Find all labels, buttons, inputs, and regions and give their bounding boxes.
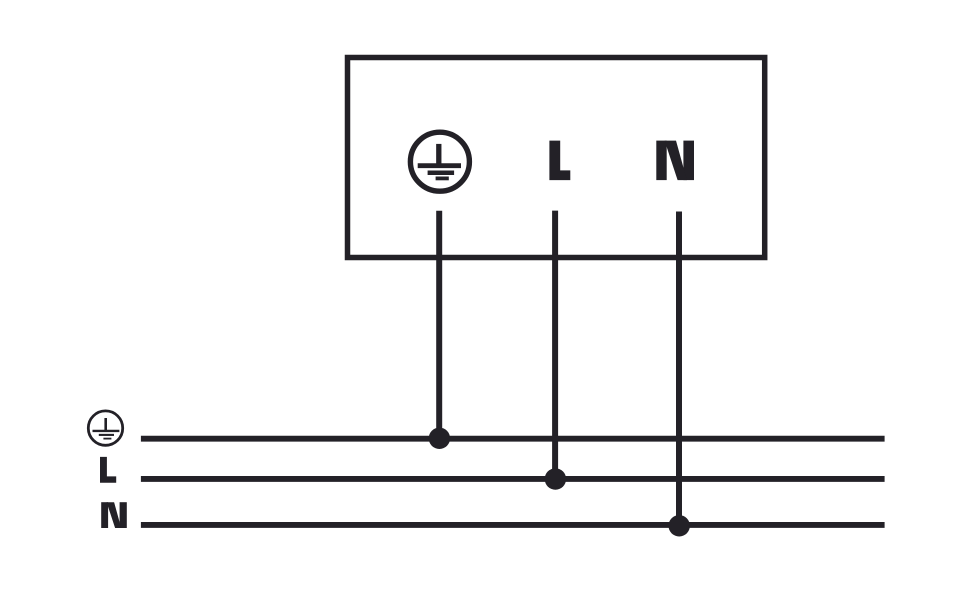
N bus label <box>101 502 127 528</box>
terminal label L <box>549 141 570 181</box>
junction dot L <box>545 468 566 489</box>
wire from L terminal <box>552 211 558 479</box>
junction dot N <box>669 515 690 536</box>
N bus line <box>141 522 885 528</box>
junction dot PE <box>429 428 450 449</box>
terminal box outline <box>348 58 765 258</box>
terminal label N <box>656 141 694 181</box>
wire from PE terminal <box>436 211 442 439</box>
PE bus label symbol (small earth in circle) <box>88 411 122 445</box>
L bus label <box>100 457 116 483</box>
wire from N terminal <box>676 212 682 526</box>
PE terminal symbol U1 (protective earth in circle) <box>410 132 469 191</box>
L bus line <box>141 476 885 482</box>
PE bus line <box>141 436 885 442</box>
